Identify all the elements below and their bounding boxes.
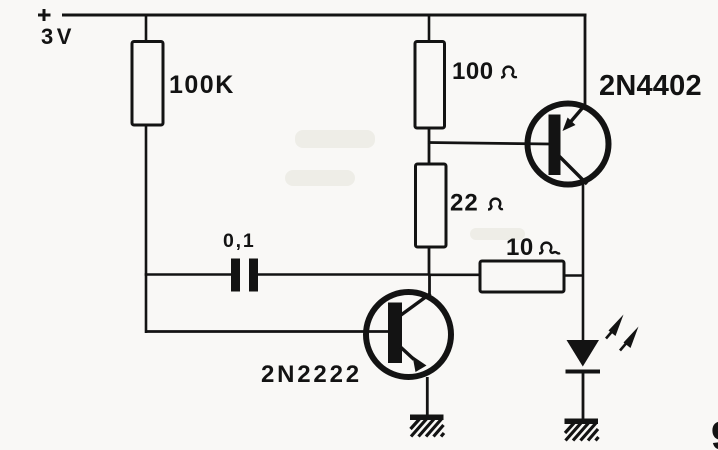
capacitor C1	[231, 259, 258, 292]
ohm symbol for 10	[539, 243, 560, 254]
ohm symbol for 100	[501, 67, 517, 78]
wire 10 ohm right lead	[564, 274, 585, 277]
wire capacitor right lead to node	[258, 273, 430, 276]
wire 100 ohm top lead	[428, 14, 431, 43]
resistor R1 100K	[132, 42, 163, 126]
wire top supply rail	[62, 14, 587, 17]
wire Q1 emitter to ground	[426, 377, 429, 417]
resistor R2 100 ohm	[415, 42, 445, 129]
wire 100K bottom vertical	[145, 125, 148, 333]
resistor R4 10 ohm	[480, 261, 564, 292]
wire node to 10 ohm	[429, 273, 480, 276]
svg-text:10: 10	[506, 234, 534, 261]
ground under LED	[565, 419, 599, 441]
svg-text:9: 9	[711, 414, 718, 450]
wire LED cathode to ground	[582, 372, 585, 421]
wire Q2 base lead	[428, 143, 550, 145]
svg-text:100: 100	[452, 58, 494, 85]
wire capacitor left lead	[145, 273, 232, 276]
wire 22 ohm bottom to node	[428, 247, 431, 275]
wire Q1 base lead	[145, 330, 389, 333]
svg-text:22: 22	[450, 190, 479, 217]
wire Q2 collector down to LED	[582, 183, 585, 342]
LED light arrow 1	[606, 315, 624, 339]
battery positive terminal +	[38, 9, 51, 21]
wire between 100 ohm and 22 ohm	[428, 128, 431, 165]
transistor Q2 2N4402	[528, 104, 609, 185]
ground under Q1	[410, 415, 444, 437]
svg-text:3V: 3V	[41, 24, 75, 49]
svg-text:100K: 100K	[169, 71, 235, 99]
ohm symbol for 22	[488, 199, 503, 210]
svg-text:0,1: 0,1	[223, 230, 256, 252]
svg-text:2N4402: 2N4402	[599, 70, 702, 102]
wire Q2 emitter to supply rail	[584, 14, 587, 106]
transistor Q1 2N2222	[366, 292, 451, 377]
svg-text:2N2222: 2N2222	[261, 361, 362, 388]
LED D1	[566, 340, 601, 374]
wire 100K top lead	[145, 14, 148, 43]
resistor R3 22 ohm	[416, 164, 447, 247]
wire node to Q1 collector	[428, 274, 431, 297]
LED light arrow 2	[620, 327, 639, 351]
